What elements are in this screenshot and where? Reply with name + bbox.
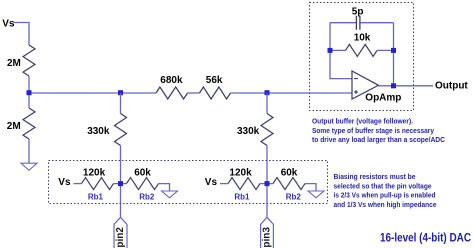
node F junction (feedback left)	[328, 48, 333, 53]
resistor Rb1 120k (network 1)	[82, 168, 114, 202]
node E junction	[265, 181, 270, 186]
svg-text:Rb1: Rb1	[234, 193, 250, 202]
node B junction	[118, 90, 123, 95]
wire R1 to node A	[28, 76, 30, 93]
node Output label	[435, 81, 468, 92]
svg-text:Vs: Vs	[58, 177, 71, 188]
wire node C to R6	[266, 93, 268, 114]
note biasing resistors text	[334, 172, 438, 209]
svg-text:and 1/3 Vs when high impedance: and 1/3 Vs when high impedance	[334, 200, 438, 209]
svg-text:5p: 5p	[352, 7, 364, 18]
wire Rb2 to ground G3	[305, 184, 316, 191]
wire node B to R5	[120, 93, 122, 114]
svg-text:10k: 10k	[354, 33, 371, 44]
wire main bus left segment	[29, 92, 156, 94]
svg-text:pin3: pin3	[261, 227, 272, 248]
svg-text:60k: 60k	[281, 168, 298, 179]
wire cap right lead	[361, 22, 394, 24]
wire Vs to Rb1	[74, 183, 82, 185]
port pin2 flag	[114, 217, 127, 248]
node C junction	[265, 90, 270, 95]
wire R5 down to pin2 node	[120, 146, 122, 218]
svg-text:Biasing resistors must be: Biasing resistors must be	[334, 172, 417, 181]
svg-text:56k: 56k	[206, 75, 223, 86]
note title 16-level (4-bit) DAC	[380, 232, 471, 244]
wire op-amp output	[379, 85, 434, 87]
wire feedback right vertical	[393, 23, 395, 86]
resistor R7 10k	[346, 33, 378, 57]
svg-text:Rb2: Rb2	[286, 193, 302, 202]
svg-text:Rb2: Rb2	[139, 193, 155, 202]
wire Vs to top of R1	[14, 23, 29, 46]
resistor Rb2 60k (network 1)	[127, 168, 159, 202]
resistor Rb1 120k (network 2)	[228, 168, 260, 202]
resistor R4 56k	[200, 75, 231, 99]
resistor R1 2M (top)	[7, 45, 35, 76]
wire between 680k and 56k	[188, 92, 200, 94]
svg-text:Vs: Vs	[2, 19, 15, 30]
biasing networks dashed box	[49, 161, 328, 204]
node Vs label network 2	[205, 177, 218, 188]
wire feedback left vertical	[330, 23, 352, 79]
svg-text:Output buffer (voltage followe: Output buffer (voltage follower).	[312, 117, 413, 126]
node G junction (feedback right top)	[391, 48, 396, 53]
wire node A to R2	[28, 93, 30, 108]
svg-text:680k: 680k	[160, 75, 183, 86]
capacitor C1 5p	[352, 7, 364, 30]
svg-text:Output: Output	[435, 81, 468, 92]
svg-text:2M: 2M	[7, 121, 21, 132]
svg-text:2M: 2M	[7, 58, 21, 69]
resistor R5 330k	[87, 114, 126, 146]
svg-text:120k: 120k	[229, 168, 252, 179]
note output buffer text	[312, 117, 445, 144]
svg-text:16-level (4-bit) DAC: 16-level (4-bit) DAC	[380, 232, 471, 244]
svg-text:330k: 330k	[87, 126, 110, 137]
output buffer dashed box	[310, 3, 414, 111]
wire Vs to Rb1 network 2	[220, 183, 228, 185]
node A junction	[27, 90, 32, 95]
node Vs label network 1	[58, 177, 71, 188]
wire Rb1 to node E	[260, 183, 273, 185]
wire Rb1 to node D	[114, 183, 127, 185]
node D junction	[118, 181, 123, 186]
resistor R2 2M (bottom)	[7, 108, 35, 139]
wire Rb2 to ground G2	[159, 184, 170, 191]
svg-text:60k: 60k	[134, 168, 151, 179]
wire R6 down to pin3 node	[266, 146, 268, 218]
node H junction (output)	[391, 83, 396, 88]
ground G3	[308, 191, 324, 198]
ground G1	[21, 163, 37, 170]
port pin3 flag	[261, 217, 274, 248]
wire cap left lead	[330, 22, 356, 24]
node Vs label top-left	[2, 19, 15, 30]
svg-text:to drive any load larger than: to drive any load larger than a scope/AD…	[312, 135, 445, 144]
wire 10k right lead	[377, 49, 394, 51]
svg-text:selected so that the pin volta: selected so that the pin voltage	[334, 181, 433, 190]
svg-text:Some type of buffer stage is n: Some type of buffer stage is necessary	[312, 126, 435, 135]
resistor R3 680k	[156, 75, 188, 99]
svg-text:120k: 120k	[83, 168, 106, 179]
svg-text:330k: 330k	[237, 126, 260, 137]
svg-text:Vs: Vs	[205, 177, 218, 188]
wire R2 to ground	[28, 139, 30, 163]
svg-text:is 2/3 Vs when pull-up is enab: is 2/3 Vs when pull-up is enabled	[334, 191, 436, 200]
wire 10k left lead	[330, 49, 346, 51]
wire main bus right segment to op-amp	[231, 92, 353, 94]
svg-text:OpAmp: OpAmp	[365, 93, 401, 104]
op-amp U1	[352, 71, 401, 104]
resistor R6 330k	[237, 114, 273, 146]
ground G2	[162, 191, 178, 198]
resistor Rb2 60k (network 2)	[273, 168, 305, 202]
svg-text:pin2: pin2	[115, 227, 126, 248]
svg-text:Rb1: Rb1	[88, 193, 104, 202]
